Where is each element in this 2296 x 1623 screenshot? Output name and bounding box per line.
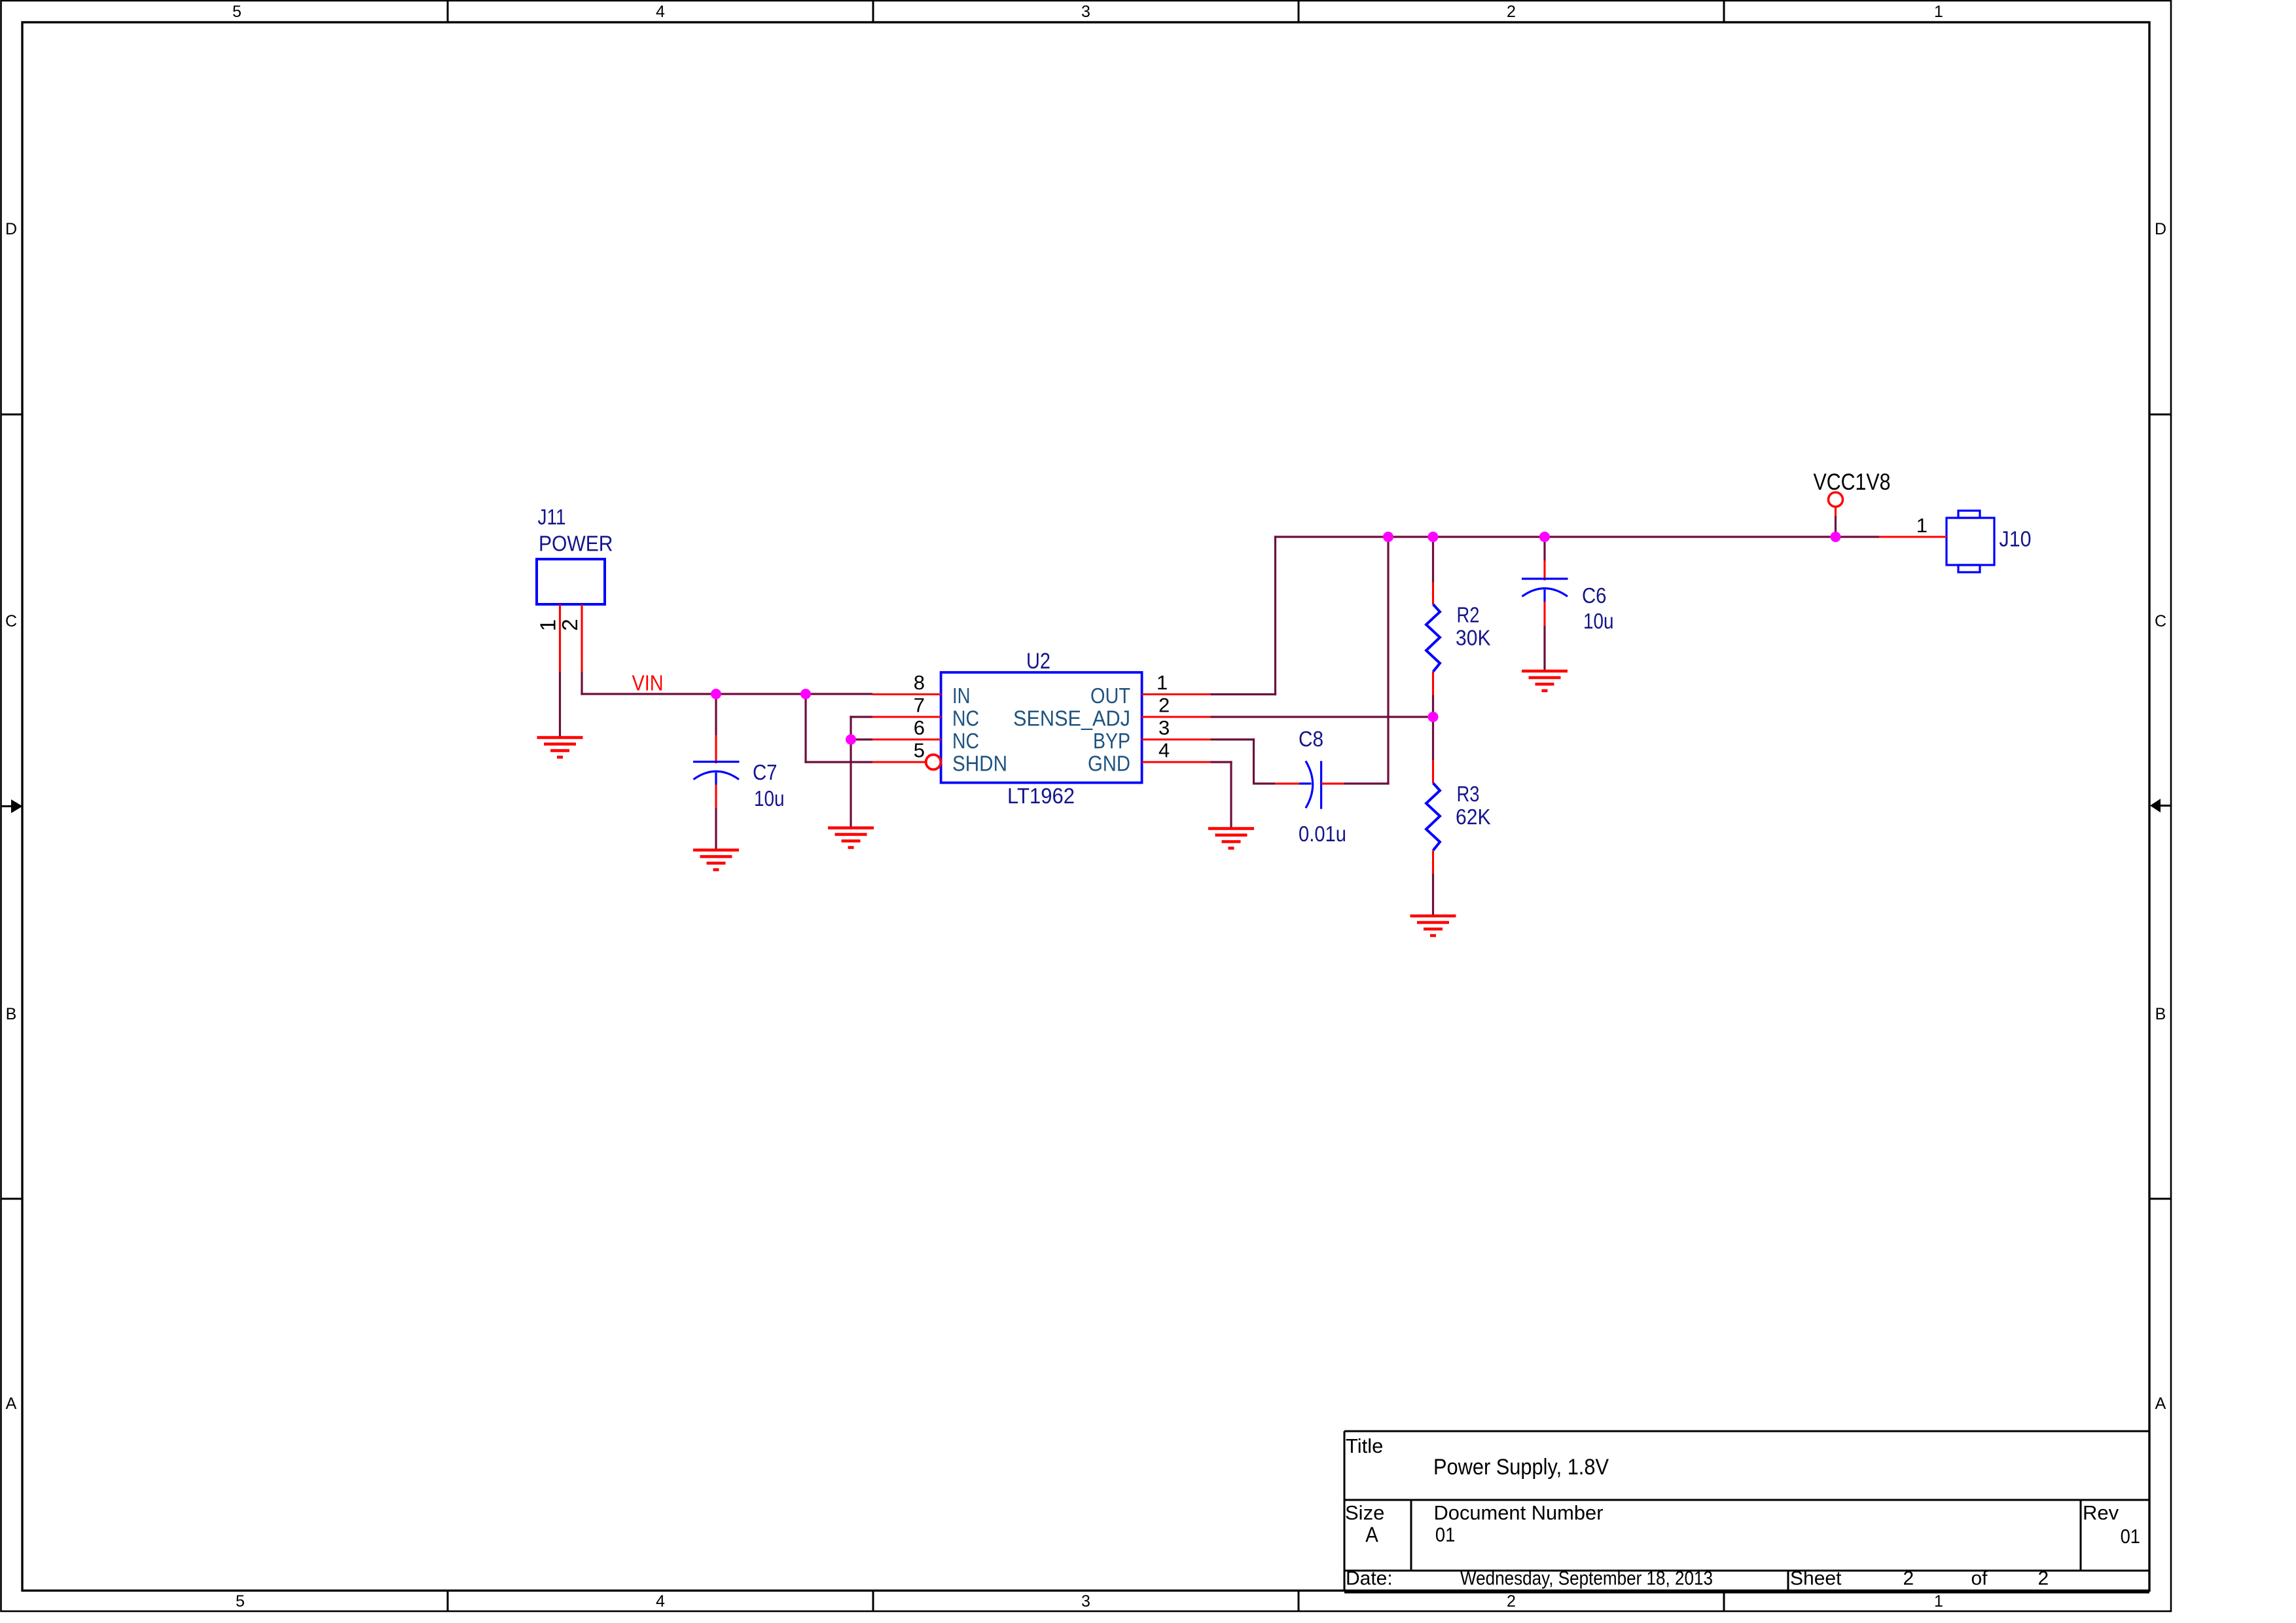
svg-text:0.01u: 0.01u [1299,822,1346,846]
wire R3 bottom to ground [1432,874,1434,917]
U2 pin 8 IN [872,693,941,695]
junction dot rail R2 [1428,532,1439,542]
svg-text:C: C [2155,612,2166,630]
svg-text:NC: NC [952,706,979,731]
svg-text:C8: C8 [1299,727,1323,751]
ground J11 [537,738,583,757]
wire GND pin4 vertical [1230,761,1232,828]
svg-text:C7: C7 [753,760,778,784]
svg-text:2: 2 [1507,1592,1516,1611]
svg-text:POWER: POWER [539,532,613,556]
svg-text:4: 4 [1158,739,1170,762]
svg-text:8: 8 [914,671,925,694]
svg-text:3: 3 [1081,3,1090,21]
border zone labels right [2155,220,2166,1413]
junction dot VIN C7 [711,689,721,699]
junction dot rail C6 [1539,532,1550,542]
wire J11 pin2 down [581,672,583,695]
IC U2 box [941,672,1142,783]
capacitor C8 [1276,761,1344,809]
U2 pin 1 OUT [1142,693,1211,695]
svg-text:3: 3 [1158,716,1170,739]
connector J10 [1946,511,1994,572]
wire NC vertical to ground [850,716,852,828]
svg-text:3: 3 [1081,1592,1090,1611]
svg-text:D: D [5,220,17,238]
svg-text:62K: 62K [1456,805,1491,829]
svg-text:2: 2 [1903,1568,1914,1590]
svg-text:A: A [1365,1523,1378,1546]
ground C7 [693,850,739,869]
svg-text:1: 1 [1934,1592,1943,1611]
svg-text:Rev: Rev [2083,1501,2119,1524]
wire VIN to SHDN vertical [804,694,806,763]
svg-text:LT1962: LT1962 [1007,784,1075,808]
power symbol VCC1V8 [1829,492,1843,516]
svg-text:Wednesday, September 18, 2013: Wednesday, September 18, 2013 [1460,1568,1713,1590]
J11 pin 2 [581,604,583,672]
wire SENSE_ADJ horizontal [1211,716,1433,718]
U2 pin 2 SENSE_ADJ [1142,716,1211,718]
wire C8 right [1344,782,1389,784]
svg-text:1: 1 [1157,671,1168,694]
svg-text:B: B [6,1005,17,1023]
svg-text:SENSE_ADJ: SENSE_ADJ [1013,706,1130,731]
svg-text:Date:: Date: [1346,1568,1393,1590]
border row ticks right [2149,414,2171,1199]
svg-text:Power Supply, 1.8V: Power Supply, 1.8V [1433,1455,1609,1480]
svg-text:30K: 30K [1456,626,1491,650]
U2 pin 3 BYP [1142,739,1211,740]
svg-text:NC: NC [952,729,979,753]
ground U2 pin4 [1208,829,1254,848]
svg-text:VCC1V8: VCC1V8 [1814,469,1891,495]
ground C6 [1522,671,1568,691]
svg-text:Sheet: Sheet [1790,1568,1842,1590]
svg-text:10u: 10u [1583,609,1614,633]
svg-text:B: B [2155,1005,2166,1023]
svg-text:A: A [6,1395,17,1413]
ground U2 NC pins [828,828,874,848]
svg-text:1: 1 [536,619,560,631]
wire BYP vertical [1253,739,1255,785]
svg-text:2: 2 [1158,694,1170,717]
wire OUT horizontal [1211,693,1277,695]
wire C7 top branch [715,694,717,735]
wire VCC rail [1274,536,1879,538]
border row ticks left [1,414,22,1199]
wire NC pin6 horizontal [851,739,872,740]
wire NC pin7 horizontal [850,716,872,718]
svg-text:Document Number: Document Number [1434,1501,1604,1524]
ground R3 [1410,916,1456,936]
border center arrow right [2150,799,2171,812]
svg-text:C6: C6 [1582,583,1607,608]
svg-text:4: 4 [656,1592,665,1611]
junction dot VIN SHDN [800,689,811,699]
J10 pin 1 [1879,536,1946,538]
svg-text:6: 6 [914,716,925,739]
J11 pin 1 [559,604,561,672]
svg-text:GND: GND [1088,752,1130,776]
junction dot SENSE R2 R3 [1428,712,1439,722]
wire C7 bottom to ground [715,808,717,850]
svg-text:D: D [2155,220,2166,238]
svg-text:R2: R2 [1457,603,1480,627]
svg-text:01: 01 [2121,1525,2140,1548]
svg-text:A: A [2155,1395,2166,1413]
resistor R2 [1426,582,1440,695]
U2 pin 6 NC [872,739,941,740]
U2 pin 5 SHDN [872,761,926,763]
junction dot NC pin6 [846,735,856,745]
capacitor C7 [693,735,740,808]
svg-text:10u: 10u [754,786,785,811]
title block outline [1344,1431,2149,1592]
svg-text:VIN: VIN [632,671,664,695]
svg-text:01: 01 [1435,1523,1455,1546]
svg-text:SHDN: SHDN [952,752,1007,776]
svg-text:IN: IN [952,684,971,708]
wire R2 bottom to R3 top [1432,695,1434,760]
svg-text:C: C [5,612,17,630]
junction dot rail VCC [1831,532,1841,542]
wire J11 pin1 to ground [559,672,561,738]
svg-text:5: 5 [236,1592,245,1611]
svg-text:7: 7 [914,694,925,717]
wire GND pin4 horizontal [1211,761,1232,763]
border zone labels bottom [236,1592,1943,1611]
capacitor C6 [1522,560,1568,626]
svg-text:2: 2 [558,619,582,630]
svg-text:1: 1 [1934,3,1943,21]
U2 pin 4 GND [1142,761,1211,763]
connector J11 box [537,559,605,604]
wire VIN horizontal [581,693,872,695]
wire SHDN horizontal [804,761,872,763]
svg-text:1: 1 [1916,514,1928,537]
svg-text:of: of [1971,1568,1988,1590]
U2 pin 7 NC [872,716,941,718]
wire C6 bottom to ground [1543,626,1545,671]
U2 pin 5 bubble [926,755,941,770]
svg-text:BYP: BYP [1093,729,1130,753]
border zone labels top [232,3,1943,21]
wire VCC symbol stub [1835,516,1837,537]
svg-text:4: 4 [656,3,665,21]
svg-text:5: 5 [914,739,925,762]
svg-text:Size: Size [1345,1501,1384,1524]
wire R2 top [1432,537,1434,582]
svg-text:5: 5 [232,3,242,21]
border center arrow left [1,799,23,813]
svg-text:OUT: OUT [1090,684,1130,708]
svg-text:R3: R3 [1457,782,1480,806]
junction dot rail C8 [1383,532,1393,542]
border column ticks bottom [448,1591,1724,1612]
wire OUT vertical riser [1274,536,1276,695]
svg-text:J11: J11 [538,505,566,529]
svg-text:2: 2 [2038,1568,2049,1590]
wire to C8 left [1254,782,1276,784]
resistor R3 [1426,760,1440,874]
svg-text:Title: Title [1346,1434,1383,1457]
border zone labels left [5,220,17,1413]
svg-text:2: 2 [1507,3,1516,21]
wire C8 to rail vertical [1387,537,1389,785]
svg-text:J10: J10 [2000,527,2032,551]
svg-text:U2: U2 [1026,649,1050,674]
wire C6 top [1543,537,1545,560]
border column ticks top [448,1,1724,22]
wire BYP horizontal [1211,739,1255,740]
